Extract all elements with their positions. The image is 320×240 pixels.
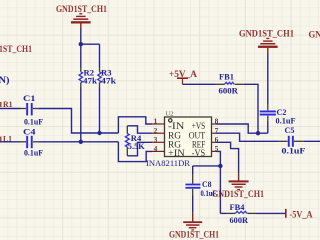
wire: R2 bottom lead to +IN line xyxy=(80,88,82,142)
svg-text:+5V_A: +5V_A xyxy=(169,70,197,80)
wire: into C1 from left edge xyxy=(0,108,21,110)
wire: C4 line to +IN corner xyxy=(38,141,118,143)
capacitor C5 xyxy=(279,136,304,147)
power port -5V_A xyxy=(285,209,287,218)
wire: +IN jog down and to pin 4 xyxy=(118,142,151,162)
node junction R3/-IN (99.5,133) xyxy=(97,131,101,135)
svg-text:C4: C4 xyxy=(23,127,36,137)
wire: R3 bottom lead to -IN line xyxy=(99,88,101,134)
wire: -IN jog up and to pin 1 xyxy=(118,117,151,133)
wire: pin 7 OUT jog down xyxy=(217,133,279,141)
node junction (258,133.2) xyxy=(256,131,260,135)
svg-text:0.1uF: 0.1uF xyxy=(276,115,296,125)
wire: R2 vertical top lead xyxy=(80,44,82,67)
op-amp U2 body xyxy=(165,117,212,157)
svg-text:GN: GN xyxy=(309,31,320,41)
net label L1 (clipped) xyxy=(0,134,12,144)
wire: pin 3 RG loop bottom xyxy=(127,142,152,156)
capacitor C1 xyxy=(21,103,39,115)
node junction R2/+IN (80.8,141.8) xyxy=(79,140,83,144)
ground symbol (C8) xyxy=(183,213,202,231)
ground symbol (REF) xyxy=(229,174,249,190)
wire: ground stem down to junction xyxy=(80,29,82,45)
resistor R2 xyxy=(79,68,82,88)
svg-text:+IN: +IN xyxy=(168,148,185,158)
svg-text:3: 3 xyxy=(154,135,158,144)
ferrite bead FB1 xyxy=(216,82,244,84)
svg-text:-VS: -VS xyxy=(192,148,206,158)
wire: into C4 from left edge xyxy=(0,141,21,143)
svg-text:U2: U2 xyxy=(166,112,174,118)
svg-text:0.1uF: 0.1uF xyxy=(24,148,43,158)
wire: C2 bottom to +VS rail xyxy=(267,122,269,134)
pin 8 stub xyxy=(212,123,218,125)
svg-text:2: 2 xyxy=(154,126,158,135)
svg-text:1ST_CH1: 1ST_CH1 xyxy=(0,45,32,55)
wire: gnd down to C2 xyxy=(267,54,269,105)
svg-text:0.1uF: 0.1uF xyxy=(24,117,43,127)
svg-text:1: 1 xyxy=(154,117,158,126)
svg-text:FB4: FB4 xyxy=(230,202,246,212)
pin 3 stub xyxy=(152,141,165,143)
pin 5 stub xyxy=(212,150,218,152)
svg-text:600R: 600R xyxy=(219,85,239,95)
node junction (80.8,44.2) xyxy=(79,42,83,46)
svg-text:N): N) xyxy=(0,75,10,85)
svg-text:4: 4 xyxy=(154,144,158,153)
pin 7 stub xyxy=(212,132,218,134)
svg-text:INA8211DR: INA8211DR xyxy=(146,158,190,168)
svg-text:0.1uF: 0.1uF xyxy=(201,188,217,198)
wire: pin 6 REF jog down to ground xyxy=(217,142,239,174)
svg-text:GND1ST_CH1: GND1ST_CH1 xyxy=(169,231,219,240)
svg-text:5.5K: 5.5K xyxy=(128,141,145,151)
svg-text:47k: 47k xyxy=(83,75,97,85)
wire: pin 5 -VS down xyxy=(217,151,221,213)
capacitor C8 xyxy=(185,166,200,196)
svg-text:FB1: FB1 xyxy=(219,71,234,81)
wire: C5 out to right edge xyxy=(304,140,320,142)
ground symbol (top right, inverted bars) xyxy=(258,38,278,54)
wire: C8 to ground xyxy=(192,196,194,213)
svg-text:C1: C1 xyxy=(23,93,36,103)
node junction (220.8,165.9) xyxy=(218,164,222,168)
svg-text:R1: R1 xyxy=(3,99,13,109)
wire: -VS down to FB4 row xyxy=(220,212,226,214)
ground symbol (top left, inverted bars) xyxy=(71,13,91,29)
pin 1 stub xyxy=(152,123,165,125)
pin 2 stub xyxy=(152,132,165,134)
wire: FB4 to -5V_A xyxy=(256,212,286,214)
net label R1 (clipped) xyxy=(0,99,12,109)
wire: -VS branch left to C8 xyxy=(193,165,221,167)
svg-text:-5V_A: -5V_A xyxy=(290,210,313,220)
resistor R3 xyxy=(98,68,101,88)
ferrite bead FB4 xyxy=(226,211,256,213)
wire: +5V_A to FB1 xyxy=(183,83,216,85)
pin 4 stub xyxy=(152,150,165,152)
pin 6 stub xyxy=(212,141,218,143)
capacitor C2 xyxy=(260,105,276,122)
wire: R3 vertical top lead xyxy=(99,44,101,67)
wire: junction to R3 branch xyxy=(81,43,100,45)
wire: C1 to corner, down, right along -IN line xyxy=(38,109,118,134)
power port +5V_A xyxy=(177,78,188,84)
resistor R4 xyxy=(125,126,129,156)
svg-text:0.1uF: 0.1uF xyxy=(282,145,306,155)
svg-text:47k: 47k xyxy=(101,75,116,85)
wire: FB1 to corner down to +VS rail xyxy=(244,84,258,133)
svg-text:600R: 600R xyxy=(230,215,249,225)
capacitor C4 xyxy=(21,136,39,148)
wire: pin 2 RG loop top xyxy=(127,126,152,133)
wire: pin 8 +VS to rail xyxy=(217,124,268,133)
svg-text:C5: C5 xyxy=(285,125,295,135)
